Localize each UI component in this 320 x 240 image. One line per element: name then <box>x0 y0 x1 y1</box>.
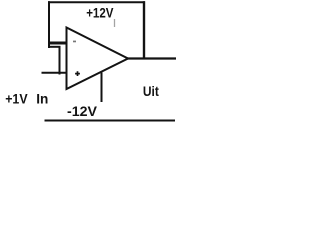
wire: bottom rail <box>45 120 176 122</box>
wire: +12V supply stub <box>114 19 116 27</box>
wire: output horizontal <box>127 57 176 59</box>
wire: feedback right vertical <box>143 1 145 58</box>
svg-text:-12V: -12V <box>67 103 98 119</box>
svg-text:Uit: Uit <box>143 83 159 99</box>
op-amp U1 triangle <box>67 28 129 90</box>
svg-text:+12V: +12V <box>86 5 114 21</box>
wire: feedback into inverting input <box>49 42 67 45</box>
op-amp non-inverting input marker (+) <box>75 71 80 76</box>
wire: branch vertical down to non-inverting input line <box>59 46 61 75</box>
svg-text:+1V: +1V <box>5 90 28 106</box>
wire: feedback left vertical <box>48 1 50 48</box>
wire: feedback top horizontal <box>48 1 145 3</box>
op-amp inverting input marker (-) <box>73 41 76 43</box>
wire: input horizontal to non-inverting input <box>42 72 67 74</box>
wire: -12V supply line <box>101 73 103 103</box>
svg-text:In: In <box>36 90 48 106</box>
wire: lower horizontal stub at feedback corner <box>48 46 61 48</box>
